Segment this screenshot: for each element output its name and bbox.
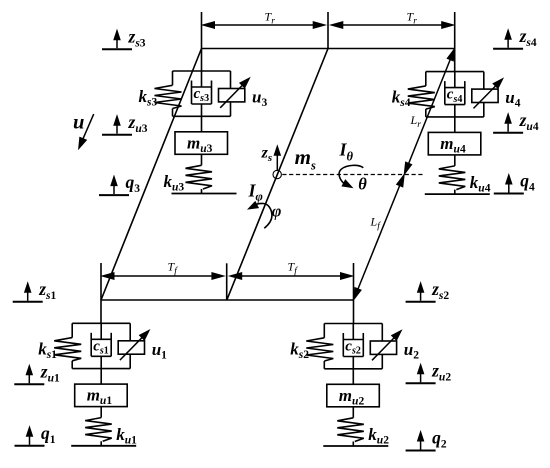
svg-text:zu1: zu1 <box>40 362 60 385</box>
svg-text:zs4: zs4 <box>519 26 537 49</box>
svg-text:q1: q1 <box>41 423 56 446</box>
svg-text:ku1: ku1 <box>116 425 137 447</box>
svg-text:u3: u3 <box>252 88 267 110</box>
svg-text:θ: θ <box>358 175 367 194</box>
svg-text:zu2: zu2 <box>431 361 451 384</box>
svg-text:q3: q3 <box>126 172 141 195</box>
svg-text:ks3: ks3 <box>139 87 158 109</box>
svg-text:cs2: cs2 <box>345 339 361 357</box>
svg-text:Lr: Lr <box>410 113 422 130</box>
svg-text:u2: u2 <box>404 340 419 362</box>
svg-text:q2: q2 <box>432 428 447 451</box>
svg-text:cs1: cs1 <box>93 338 109 356</box>
svg-text:ks4: ks4 <box>392 88 411 110</box>
svg-text:ku2: ku2 <box>368 425 389 447</box>
svg-text:mu1: mu1 <box>87 386 113 408</box>
svg-text:u4: u4 <box>505 88 520 110</box>
svg-text:u: u <box>73 112 84 134</box>
svg-text:zu4: zu4 <box>519 110 539 133</box>
svg-text:ms: ms <box>295 145 316 173</box>
svg-text:zs1: zs1 <box>38 279 56 302</box>
svg-text:ku4: ku4 <box>470 173 491 195</box>
svg-text:zs3: zs3 <box>128 26 146 49</box>
svg-text:Iθ: Iθ <box>339 139 354 163</box>
svg-text:mu3: mu3 <box>187 133 213 155</box>
svg-text:Tr: Tr <box>407 10 418 27</box>
svg-text:q4: q4 <box>520 171 535 194</box>
svg-text:Iφ: Iφ <box>248 181 263 204</box>
svg-text:zs: zs <box>261 145 273 164</box>
svg-text:Tf: Tf <box>168 260 179 277</box>
svg-text:Tf: Tf <box>288 260 299 277</box>
svg-text:mu2: mu2 <box>339 386 365 408</box>
svg-text:zu3: zu3 <box>128 112 148 135</box>
svg-text:u1: u1 <box>152 340 167 362</box>
svg-text:ks2: ks2 <box>290 340 309 362</box>
svg-text:ks1: ks1 <box>38 339 57 361</box>
svg-text:cs4: cs4 <box>447 87 463 105</box>
svg-text:Tr: Tr <box>265 10 276 27</box>
svg-text:mu4: mu4 <box>440 134 466 156</box>
svg-text:Lf: Lf <box>370 215 382 232</box>
svg-text:zs2: zs2 <box>431 279 449 302</box>
svg-text:cs3: cs3 <box>194 86 210 104</box>
svg-text:ku3: ku3 <box>164 172 185 194</box>
svg-text:φ: φ <box>272 202 282 221</box>
